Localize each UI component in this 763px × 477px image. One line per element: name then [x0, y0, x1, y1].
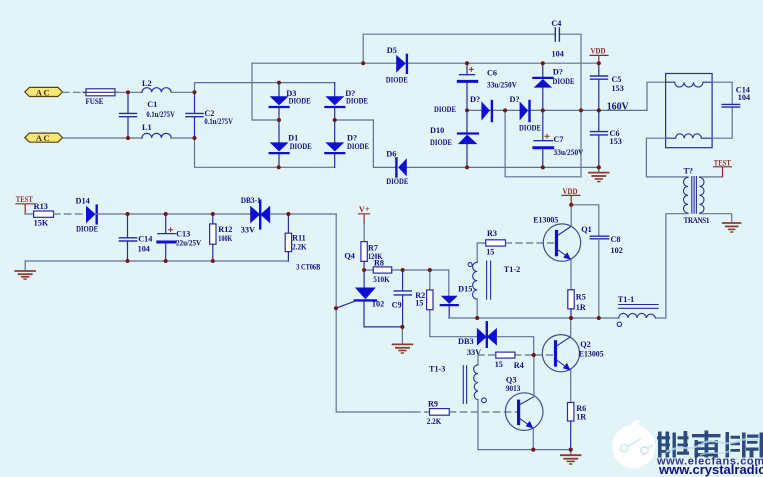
ground (transformer) [723, 223, 741, 232]
transistor Q2 E13005 [542, 335, 603, 372]
capacitor C9 [394, 270, 411, 327]
svg-text:TEST: TEST [16, 195, 33, 204]
wire AC top to fuse [63, 91, 87, 93]
capacitor C4 [551, 19, 563, 58]
wire transformer bottom left down to T1-1 [655, 214, 688, 318]
svg-text:160V: 160V [607, 100, 629, 112]
svg-text:0.1u/275V: 0.1u/275V [146, 110, 175, 119]
node dc bottom rail junctions [465, 165, 469, 169]
diode D3 [270, 83, 311, 120]
resistor R5 [568, 290, 586, 318]
svg-text:C9: C9 [392, 300, 402, 309]
resistor R12 [210, 214, 233, 261]
ground (output stage) [561, 450, 581, 464]
resistor R9 [427, 399, 450, 425]
wire R9 to Q3 base [449, 411, 516, 413]
resistor R13 [34, 202, 54, 228]
resistor R11 [285, 214, 307, 261]
resistor R6 [568, 403, 587, 450]
ground (left) [15, 261, 35, 279]
node AC filter junctions [126, 90, 130, 94]
capacitor C5 [591, 63, 624, 110]
wire AC bottom [63, 137, 143, 139]
power flag VDD (top) [590, 47, 608, 64]
svg-text:DIODE: DIODE [386, 177, 408, 186]
svg-text:T1-1: T1-1 [618, 295, 634, 304]
inductor L1 [142, 123, 171, 138]
wire DB3-1 to right column [270, 213, 336, 215]
wire bridge mid-left to top rail [252, 63, 279, 120]
diode D5 [386, 46, 408, 85]
svg-text:510K: 510K [373, 275, 390, 284]
wire bridge mid-right to D6 [335, 120, 396, 167]
svg-text:104: 104 [552, 50, 564, 59]
svg-text:DIODE: DIODE [289, 97, 311, 106]
svg-text:L1: L1 [142, 123, 152, 132]
connector AC (bottom) [25, 133, 63, 143]
capacitor C6 (33u/250V) [458, 63, 517, 110]
diac DB3-1 [241, 196, 271, 234]
ground (C9) [393, 327, 413, 353]
svg-text:D?: D? [470, 95, 480, 104]
svg-text:33u/250V: 33u/250V [487, 80, 517, 89]
svg-text:R5: R5 [576, 293, 586, 302]
node mid rail junctions [475, 316, 479, 320]
svg-text:TRANS1: TRANS1 [684, 216, 710, 225]
capacitor C1 [120, 92, 175, 138]
diode D? (bridge bottom right) [325, 120, 369, 167]
svg-text:E13005: E13005 [533, 215, 558, 224]
node bottom rail junctions [531, 448, 535, 452]
inductor T1-1 [617, 295, 658, 326]
wire main VDD rail [252, 62, 599, 64]
wire D14 to DB3-1 [97, 213, 251, 215]
node row2 junctions [126, 212, 130, 216]
svg-text:15: 15 [495, 360, 503, 369]
node ground rail junctions [126, 259, 130, 263]
svg-text:15: 15 [415, 299, 423, 308]
wire R13 to D14 [54, 213, 87, 215]
wire filter to C14 [712, 82, 732, 138]
node VDD mid junction [569, 203, 573, 207]
svg-text:D?: D? [510, 95, 520, 104]
wire VDD node to C8 [571, 205, 599, 236]
diode D14 [76, 197, 99, 234]
svg-text:Q3: Q3 [506, 375, 517, 384]
capacitor C14 (left, 104) [119, 214, 152, 261]
svg-text:33u/250V: 33u/250V [554, 148, 584, 157]
svg-text:L2: L2 [142, 79, 152, 88]
svg-text:3 CT06B: 3 CT06B [296, 262, 320, 271]
power flag TEST (right) [714, 158, 732, 177]
svg-text:Q1: Q1 [581, 225, 592, 234]
wire 160V rail to output filter [647, 82, 666, 110]
capacitor C8 [590, 235, 623, 318]
svg-text:AC: AC [36, 87, 51, 97]
resistor R4 [495, 352, 524, 370]
watermark chinese characters [657, 431, 763, 458]
diode D? (bridge top right) [325, 83, 368, 120]
diode D? (vertical, near C6) [533, 63, 575, 110]
transistor Q1 E13005 [533, 215, 592, 261]
ground (main dc) [589, 167, 609, 181]
inductor (filter bottom winding) [666, 134, 713, 138]
wire DB3 right to Q2 base node [497, 337, 534, 355]
resistor R3 [486, 229, 506, 256]
svg-text:2.2K: 2.2K [292, 242, 307, 251]
node 160V rail junctions [465, 108, 469, 112]
svg-text:D15: D15 [458, 284, 472, 293]
svg-text:TEST: TEST [714, 158, 731, 167]
svg-text:DIODE: DIODE [290, 142, 312, 151]
svg-text:D10: D10 [430, 126, 444, 135]
wire long left column down to R9 [336, 214, 414, 412]
wire transformer bottom right to ground [700, 214, 732, 223]
svg-text:DB3-1: DB3-1 [241, 196, 261, 205]
svg-text:102: 102 [372, 299, 384, 308]
node gate junction [334, 306, 338, 310]
svg-text:R4: R4 [514, 361, 524, 370]
node bridge junctions [277, 81, 281, 85]
svg-text:100K: 100K [218, 234, 232, 243]
svg-text:VDD: VDD [591, 47, 606, 56]
wire Q3 emitter to bottom rail [532, 429, 534, 450]
svg-text:FUSE: FUSE [86, 97, 104, 106]
wire Q2 emitter to R6 [570, 371, 572, 403]
svg-text:DIODE: DIODE [347, 142, 369, 151]
inductor (filter top winding) [666, 82, 713, 87]
wire node up to bridge top rail [195, 83, 335, 93]
transformer winding T1-3 [429, 355, 486, 450]
transformer winding T1-2 [468, 243, 520, 318]
transistor Q3 9013 [505, 375, 543, 430]
resistor R2 [415, 270, 477, 337]
svg-text:C5: C5 [612, 75, 622, 84]
svg-text:R3: R3 [487, 229, 497, 238]
transformer T? TRANS1 [684, 166, 710, 225]
power flag V+ [359, 205, 370, 242]
wire bottom dc rail [407, 166, 599, 168]
diode D10 [430, 110, 478, 167]
capacitor C6 (153) [591, 110, 622, 167]
svg-text:D14: D14 [76, 197, 90, 206]
svg-text:T1-2: T1-2 [504, 265, 520, 274]
svg-text:E13005: E13005 [579, 349, 604, 358]
svg-text:DIODE: DIODE [76, 224, 98, 233]
wire R7 bottom / R8 row [364, 269, 449, 271]
capacitor C2 [186, 92, 233, 138]
diode D15 [441, 270, 473, 318]
svg-text:1R: 1R [576, 413, 586, 422]
svg-text:C6: C6 [487, 69, 497, 78]
svg-text:C4: C4 [551, 19, 561, 28]
svg-text:9013: 9013 [506, 384, 521, 393]
svg-text:T1-3: T1-3 [429, 365, 445, 374]
svg-text:102: 102 [611, 246, 623, 255]
wire C2 node down to bridge bottom rail [195, 138, 335, 167]
svg-text:2.2K: 2.2K [427, 417, 442, 426]
capacitor C13 (22u/25V) [158, 214, 201, 261]
svg-text:R6: R6 [576, 404, 586, 413]
watermark logo leaf [612, 420, 655, 468]
svg-text:C14: C14 [138, 234, 152, 243]
wire C4 return loop [505, 110, 581, 176]
svg-text:R13: R13 [34, 202, 48, 211]
wire Q1 emitter to R5 [570, 260, 572, 290]
wire filter bottom to transformer [646, 138, 688, 177]
wire Q1 collector to VDD node [570, 205, 572, 227]
svg-text:VDD: VDD [563, 187, 578, 196]
wire R3 to Q1 base [506, 242, 555, 244]
wire 160V rail [467, 109, 647, 111]
svg-text:C13: C13 [176, 230, 190, 239]
svg-text:R8: R8 [374, 259, 384, 268]
svg-text:104: 104 [738, 93, 750, 102]
node vdd rail junctions [361, 61, 365, 65]
wire L2 to node [171, 91, 194, 93]
svg-text:www.crystalradio: www.crystalradio [658, 462, 763, 477]
svg-text:33V: 33V [241, 225, 255, 234]
wire fuse to node [115, 91, 142, 93]
svg-text:C1: C1 [147, 100, 157, 109]
svg-text:15: 15 [486, 247, 494, 256]
svg-text:C8: C8 [611, 235, 621, 244]
svg-text:153: 153 [612, 84, 624, 93]
svg-text:DIODE: DIODE [553, 77, 575, 86]
svg-text:C7: C7 [554, 135, 564, 144]
svg-text:DIODE: DIODE [386, 76, 408, 85]
capacitor C7 (33u/250V) [534, 110, 584, 167]
wire transformer top right to TEST [700, 176, 723, 178]
wire L1 to node [171, 137, 194, 139]
svg-text:R12: R12 [218, 225, 232, 234]
svg-text:153: 153 [610, 137, 622, 146]
svg-text:33V: 33V [467, 348, 481, 357]
resistor R7 [361, 242, 383, 270]
svg-text:T?: T? [684, 166, 694, 175]
svg-text:DIODE: DIODE [434, 105, 456, 114]
wire TEST to R13 [25, 213, 33, 215]
wire Q3 collector up to R4 node [533, 355, 535, 397]
wire C4 branch top rail [363, 34, 581, 110]
svg-text:D6: D6 [386, 149, 396, 158]
svg-text:0.1u/275V: 0.1u/275V [204, 117, 233, 126]
resistor R8 [373, 259, 391, 285]
power flag TEST (left) [16, 195, 34, 214]
svg-text:DIODE: DIODE [430, 138, 452, 147]
diode D? (mid left horizontal) [434, 95, 492, 121]
fuse FUSE [83, 89, 118, 106]
svg-text:1R: 1R [576, 303, 586, 312]
node R8 row junctions [362, 268, 366, 272]
svg-text:V+: V+ [359, 205, 370, 214]
svg-text:DB3: DB3 [458, 337, 474, 346]
svg-text:Q4: Q4 [344, 252, 354, 261]
diode D6 [386, 149, 408, 186]
svg-text:104: 104 [138, 244, 150, 253]
diode D1 [270, 120, 312, 167]
svg-text:D?: D? [553, 68, 563, 77]
svg-text:22u/25V: 22u/25V [176, 239, 201, 248]
power flag VDD (mid) [562, 187, 580, 205]
diode D? (mid right horizontal) [510, 95, 542, 133]
wire ground rail (row 2) [25, 260, 288, 262]
node Q2 base junction [532, 353, 536, 357]
capacitor C14 (output) [722, 86, 750, 107]
watermark script overlay [666, 439, 760, 452]
svg-text:15K: 15K [34, 218, 49, 227]
output filter box T? [666, 74, 713, 148]
inductor L2 [142, 79, 171, 93]
thyristor Q4 [336, 270, 402, 327]
svg-text:AC: AC [36, 133, 51, 143]
svg-text:DIODE: DIODE [346, 97, 368, 106]
wire bottom emitter rail [478, 449, 571, 451]
node C9 ground junction [400, 325, 404, 329]
diac DB3 [458, 322, 497, 357]
svg-text:D5: D5 [387, 46, 397, 55]
wire mid rail (feedback rail) [449, 317, 619, 319]
svg-text:DIODE: DIODE [519, 124, 541, 133]
svg-text:R9: R9 [428, 399, 438, 408]
wire R4 row [478, 354, 554, 356]
wire Q2 collector to mid rail [570, 318, 572, 337]
svg-text:Q2: Q2 [580, 340, 591, 349]
connector AC (top) [25, 87, 63, 97]
